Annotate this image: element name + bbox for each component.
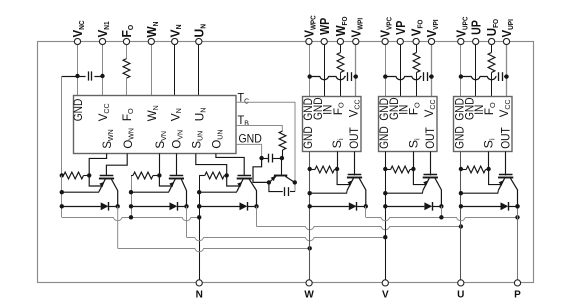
wire SI pin W bbox=[337, 152, 339, 170]
IGBT Q2 (V low) gate bar bbox=[170, 175, 184, 177]
wire HS supply U left bbox=[461, 77, 497, 80]
wire diode cathode 2 (V low) bbox=[178, 206, 187, 208]
wire V phase horizontal bbox=[187, 238, 386, 241]
junction diode anode rail 2 (V low) bbox=[129, 204, 133, 208]
junction sense 2 (V low) bbox=[157, 173, 161, 177]
transistor Q7 emitter arrow bbox=[271, 176, 276, 181]
junction diode anode WHS bbox=[308, 204, 312, 208]
terminal VVPI bbox=[428, 38, 434, 44]
IGBT QVHS collector diagonal bbox=[435, 178, 441, 206]
diode D1 (W low) bbox=[101, 202, 109, 210]
transistor Q7 base wire bbox=[281, 158, 283, 175]
wire sense to emitter 1 (W low) bbox=[89, 175, 102, 186]
wire rail to resistor 3 (U low) bbox=[199, 175, 205, 177]
wire sense to emitter VHS bbox=[413, 169, 425, 185]
diode D3 (U low) bbox=[240, 202, 248, 210]
wire SI pin U bbox=[488, 152, 490, 170]
svg-text:OUT: OUT bbox=[347, 127, 361, 149]
wire Q7 emitter to cap C3 bbox=[269, 182, 283, 191]
wire resistor to sense dot 1 (W low) bbox=[84, 175, 90, 177]
terminal V bbox=[382, 280, 388, 286]
emitter arrow 2 (V low) bbox=[169, 182, 174, 187]
wire diode cathode 3 (U low) bbox=[248, 206, 257, 208]
junction thermistor-cap node bbox=[280, 156, 284, 160]
IGBT QVHS emitter diagonal bbox=[423, 178, 429, 190]
junction diode anode VHS bbox=[383, 204, 387, 208]
junction VUPC bbox=[459, 74, 463, 78]
svg-text:N: N bbox=[196, 290, 203, 301]
wire Tc bbox=[236, 102, 295, 191]
wire UFO terminal to resistor bbox=[491, 45, 493, 53]
wire WN terminal to WN pin bbox=[151, 45, 153, 96]
wire diode anode 1 (W low) bbox=[62, 206, 101, 208]
wire cap C2 to thermistor node bbox=[273, 158, 282, 160]
wire res to sense WHS bbox=[334, 169, 337, 171]
wire N-side emitter bus bbox=[62, 218, 199, 221]
wire FO terminal to resistor bbox=[126, 45, 128, 59]
capacitor C1 between VNC and VN1 bbox=[88, 71, 90, 80]
resistor RVHS sense bbox=[391, 166, 410, 173]
IGBT QWHS emitter diagonal bbox=[347, 178, 353, 190]
wire resistor to sense dot 3 (U low) bbox=[224, 175, 226, 177]
wire sense to emitter UHS bbox=[489, 169, 501, 185]
diode D2 (V low) bbox=[170, 202, 178, 210]
terminal VUPI bbox=[503, 38, 509, 44]
resistor R3 (U low) sense bbox=[205, 172, 224, 179]
IGBT QUHS emitter wire bbox=[461, 190, 499, 193]
svg-text:W: W bbox=[304, 290, 314, 301]
wire resistor to FO pin V bbox=[416, 73, 418, 97]
wire rail 2 (V low) bbox=[131, 175, 133, 217]
wire diode anode UHS bbox=[461, 206, 501, 208]
wire gnd node jog to transistor emitter bbox=[253, 158, 269, 182]
wire diode anode 2 (V low) bbox=[131, 206, 170, 208]
svg-text:GND: GND bbox=[239, 131, 263, 145]
resistor on FO line bbox=[123, 59, 130, 78]
capacitor C2 bbox=[268, 154, 270, 163]
wire res to sense VHS bbox=[410, 169, 414, 171]
wire Tb to thermistor bbox=[236, 126, 282, 132]
junction VNC bbox=[75, 74, 79, 78]
IGBT QUHS emitter diagonal bbox=[498, 178, 504, 190]
wire gnd node to cap C2 bbox=[262, 158, 269, 160]
resistor on WFO line bbox=[337, 53, 344, 73]
wire VVPI terminal to VCC pin bbox=[431, 45, 433, 97]
wire VVPC terminal to HS IC GND pin bbox=[385, 45, 387, 97]
junction emitter rail 1 (W low) bbox=[60, 190, 64, 194]
junction U phase bbox=[459, 224, 463, 228]
terminal P bbox=[514, 280, 520, 286]
terminal WN bbox=[148, 38, 154, 44]
wire U phase rail bbox=[460, 152, 462, 280]
wire VP terminal to IN pin bbox=[400, 45, 402, 97]
wire HS supply V right bbox=[429, 76, 432, 78]
wire VNC terminal to low-side IC GND pin bbox=[77, 45, 79, 96]
junction gnd-cap node bbox=[259, 156, 263, 160]
junction VVPC bbox=[383, 74, 387, 78]
wire diode cathode 1 (W low) bbox=[109, 206, 118, 208]
junction sense 1 (W low) bbox=[87, 173, 91, 177]
wire OUT pin V bbox=[430, 152, 432, 176]
wire resistor to FO pin W bbox=[340, 73, 342, 97]
junction diode cathode 3 (U low) bbox=[254, 204, 258, 208]
terminal VWPI bbox=[353, 38, 359, 44]
junction rail resistor UHS bbox=[459, 167, 463, 171]
svg-text:U: U bbox=[457, 290, 464, 301]
terminal FO bbox=[123, 38, 129, 44]
wire diode cathode UHS bbox=[509, 206, 518, 208]
junction VWPC bbox=[308, 74, 312, 78]
terminal VN bbox=[172, 38, 178, 44]
wire P bus bbox=[366, 218, 518, 221]
junction rail resistor VHS bbox=[383, 167, 387, 171]
junction P bus bbox=[515, 215, 519, 219]
IGBT QVHS gate bar bbox=[424, 174, 438, 176]
IGBT QWHS emitter wire bbox=[310, 190, 348, 193]
wire VN1 terminal to low-side IC VCC pin bbox=[102, 45, 104, 96]
IGBT QVHS emitter wire bbox=[385, 190, 423, 193]
wire VNC junction to N-side ground rail bbox=[62, 76, 78, 78]
wire sense to emitter 3 (U low) bbox=[227, 175, 240, 186]
junction diode cathode VHS bbox=[439, 204, 443, 208]
terminal UN bbox=[196, 38, 202, 44]
IGBT Q3 (U low) emitter wire bbox=[199, 191, 237, 192]
IGBT QUHS gate bar bbox=[499, 174, 513, 176]
wire SVN pin bbox=[159, 154, 161, 176]
wire cap to VN1 junction bbox=[94, 76, 102, 78]
resistor RUHS sense bbox=[466, 166, 485, 173]
junction sense UHS bbox=[486, 167, 490, 171]
junction sense 3 (U low) bbox=[225, 173, 229, 177]
wire diode anode WHS bbox=[310, 206, 349, 208]
terminal VWPC bbox=[306, 38, 312, 44]
wire rail to resistor 2 (V low) bbox=[131, 175, 133, 177]
svg-text:GND: GND bbox=[453, 126, 467, 149]
wire rail to res WHS bbox=[310, 169, 315, 171]
wire SI pin V bbox=[413, 152, 415, 170]
transistor Q7 body bar bbox=[274, 175, 287, 177]
resistor RWHS sense bbox=[315, 166, 334, 173]
wire OVN pin bbox=[176, 154, 178, 176]
wire resistor to FO pin U bbox=[491, 73, 493, 97]
IGBT Q3 (U low) gate bar bbox=[238, 175, 252, 177]
wire resistor to sense dot 2 (V low) bbox=[153, 175, 159, 177]
op-amp UW high-side driver IC box bbox=[303, 97, 362, 152]
IGBT Q1 (W low) collector diagonal bbox=[111, 179, 117, 206]
emitter arrow VHS bbox=[423, 180, 428, 185]
wire rail to res VHS bbox=[385, 169, 390, 171]
wire V phase from low-side bbox=[186, 206, 188, 237]
terminal UFO bbox=[489, 38, 495, 44]
IGBT QUHS body bar bbox=[498, 177, 513, 179]
wire VWPI terminal to VCC pin bbox=[355, 45, 357, 97]
wire VFO terminal to resistor bbox=[416, 45, 418, 53]
wire rail to res UHS bbox=[461, 169, 466, 171]
junction P diode bbox=[515, 204, 519, 208]
junction diode cathode 1 (W low) bbox=[116, 204, 120, 208]
wire N-side ground rail upper 1 (W low) bbox=[61, 76, 63, 175]
wire W cathode down bbox=[365, 206, 367, 217]
terminal VUPC bbox=[458, 38, 464, 44]
svg-text:WP: WP bbox=[317, 17, 332, 34]
terminal VNC bbox=[74, 38, 80, 44]
junction bus N line bbox=[197, 215, 201, 219]
capacitor CVP bbox=[423, 72, 425, 81]
terminal N bbox=[196, 280, 202, 286]
junction diode anode UHS bbox=[459, 204, 463, 208]
wire UP terminal to IN pin bbox=[475, 45, 477, 97]
capacitor CUP bbox=[498, 72, 500, 81]
svg-text:V: V bbox=[382, 290, 389, 301]
wire SUN pin step bbox=[196, 154, 227, 176]
wire VNC junction to decoupling cap bbox=[78, 76, 86, 78]
IGBT Q1 (W low) emitter diagonal bbox=[99, 179, 105, 191]
transistor Q7 emitter diagonal bbox=[269, 176, 276, 182]
wire res to sense UHS bbox=[486, 169, 489, 171]
wire WFO terminal to resistor bbox=[340, 45, 342, 53]
wire W phase horizontal bbox=[118, 249, 310, 252]
junction sense VHS bbox=[411, 167, 415, 171]
junction N diode bbox=[197, 204, 201, 208]
resistor on UFO line bbox=[488, 53, 495, 73]
capacitor C3 bbox=[284, 187, 286, 196]
junction rail resistor WHS bbox=[308, 167, 312, 171]
wire GND pin to cap node bbox=[236, 144, 261, 158]
svg-text:GND: GND bbox=[301, 126, 315, 149]
node P line bbox=[517, 206, 519, 279]
junction diode cathode WHS bbox=[364, 204, 368, 208]
junction bus V rail bbox=[129, 215, 133, 219]
IGBT Q2 (V low) emitter diagonal bbox=[169, 179, 175, 191]
terminal WFO bbox=[337, 38, 343, 44]
IGBT QWHS gate bar bbox=[348, 174, 362, 176]
wire HS supply W left bbox=[310, 77, 346, 80]
IGBT Q2 (V low) collector diagonal bbox=[181, 179, 186, 206]
IGBT Q1 (W low) body bar bbox=[99, 178, 114, 180]
module package outline bbox=[38, 42, 534, 283]
op-amp UU high-side driver IC box bbox=[454, 97, 513, 152]
terminal VFO bbox=[413, 38, 419, 44]
junction Q7 emitter bbox=[267, 180, 271, 184]
transistor Q7 collector diagonal bbox=[285, 176, 294, 182]
svg-text:GND: GND bbox=[71, 99, 85, 122]
terminal UP bbox=[473, 38, 479, 44]
terminal WP bbox=[321, 38, 327, 44]
IGBT Q3 (U low) collector diagonal bbox=[249, 179, 256, 206]
wire sense to emitter 2 (V low) bbox=[159, 175, 171, 186]
wire WP terminal to IN pin bbox=[324, 45, 326, 97]
terminal U bbox=[458, 280, 464, 286]
junction VWPI bbox=[354, 74, 358, 78]
wire UN terminal to UN pin bbox=[198, 45, 200, 96]
wire OUN pin step bbox=[216, 154, 244, 176]
wire W phase rail bbox=[309, 152, 311, 280]
wire HS supply W right bbox=[353, 76, 356, 78]
op-amp UV high-side driver IC box bbox=[379, 97, 438, 152]
emitter arrow UHS bbox=[499, 180, 504, 185]
diode DVHS bbox=[424, 202, 432, 210]
thermistor R7 bbox=[279, 131, 286, 150]
IGBT QWHS body bar bbox=[347, 177, 362, 179]
junction V cathode bus bbox=[439, 215, 443, 219]
IGBT Q2 (V low) emitter wire bbox=[131, 191, 169, 192]
IGBT QWHS collector diagonal bbox=[359, 178, 366, 206]
svg-text:GND: GND bbox=[377, 126, 391, 149]
wire sense to emitter WHS bbox=[337, 169, 350, 185]
wire VUPI terminal to VCC pin bbox=[506, 45, 508, 97]
junction VN1 bbox=[100, 74, 104, 78]
wire U phase horizontal bbox=[257, 227, 461, 230]
wire OWN pin step bbox=[106, 154, 127, 176]
wire HS supply U right bbox=[504, 76, 507, 78]
wire rail to resistor 1 (W low) bbox=[62, 175, 64, 177]
junction diode anode rail 3 (U low) bbox=[197, 204, 201, 208]
wire W phase from low-side bbox=[117, 206, 119, 248]
wire thermistor to node bbox=[282, 150, 284, 158]
wire U phase from low-side bbox=[256, 206, 258, 226]
diode DUHS bbox=[501, 202, 509, 210]
capacitor CWP bbox=[347, 72, 349, 81]
terminal VN1 bbox=[99, 38, 105, 44]
junction rail resistor 1 (W low) bbox=[60, 173, 64, 177]
wire diode cathode WHS bbox=[357, 206, 366, 208]
wire resistor to FO pin bbox=[126, 78, 128, 95]
terminal VP bbox=[397, 38, 403, 44]
emitter arrow 3 (U low) bbox=[237, 182, 242, 187]
junction emitter rail UHS bbox=[459, 191, 463, 195]
junction diode anode rail 1 (W low) bbox=[60, 204, 64, 208]
svg-text:OUT: OUT bbox=[423, 127, 437, 149]
junction emitter rail VHS bbox=[383, 191, 387, 195]
resistor R2 (V low) sense bbox=[133, 172, 153, 179]
node N line bbox=[199, 217, 201, 279]
wire OUT pin U bbox=[505, 152, 507, 176]
wire OUT pin W bbox=[354, 152, 356, 176]
junction VUPI bbox=[504, 74, 508, 78]
wire rail 3 (U low) bbox=[199, 175, 201, 217]
wire HS supply V left bbox=[385, 77, 421, 80]
wire diode anode 3 (U low) bbox=[199, 206, 239, 208]
wire V cathode down bbox=[441, 206, 443, 217]
wire diode cathode VHS bbox=[433, 206, 442, 208]
IGBT Q1 (W low) emitter wire bbox=[62, 191, 99, 192]
svg-text:P: P bbox=[514, 290, 521, 301]
junction Q7 collector on Tc line bbox=[293, 180, 297, 184]
op-amp U1 low-side driver IC box bbox=[74, 96, 237, 154]
svg-text:UP: UP bbox=[468, 20, 483, 35]
IGBT QUHS collector diagonal bbox=[511, 178, 518, 206]
IGBT Q3 (U low) emitter diagonal bbox=[237, 179, 243, 191]
junction emitter rail 2 (V low) bbox=[129, 190, 133, 194]
IGBT QVHS body bar bbox=[423, 177, 438, 179]
diode DWHS bbox=[349, 202, 357, 210]
wire diode anode VHS bbox=[385, 206, 424, 208]
junction emitter rail 3 (U low) bbox=[197, 190, 201, 194]
IGBT Q1 (W low) gate bar bbox=[100, 175, 114, 177]
wire cap C3 to Tc line bbox=[290, 191, 295, 193]
resistor on VFO line bbox=[413, 53, 420, 73]
wire SWN pin step bbox=[89, 154, 106, 176]
IGBT Q2 (V low) body bar bbox=[169, 178, 184, 180]
junction diode cathode 2 (V low) bbox=[184, 204, 188, 208]
IGBT Q3 (U low) body bar bbox=[237, 178, 252, 180]
junction emitter rail WHS bbox=[308, 191, 312, 195]
junction VVPI bbox=[429, 74, 433, 78]
wire V phase rail bbox=[385, 152, 387, 280]
junction sense WHS bbox=[335, 167, 339, 171]
junction W phase bbox=[308, 246, 312, 250]
svg-text:OUT: OUT bbox=[498, 127, 512, 149]
junction diode cathode UHS bbox=[515, 204, 519, 208]
emitter arrow WHS bbox=[347, 180, 352, 185]
resistor R1 (W low) sense bbox=[64, 172, 84, 179]
wire VN terminal to VN pin bbox=[174, 45, 176, 96]
wire VUPC terminal to HS IC GND pin bbox=[460, 45, 462, 97]
junction V phase bbox=[383, 235, 387, 239]
terminal W bbox=[306, 280, 312, 286]
wire rail 1 (W low) bbox=[61, 175, 63, 217]
terminal VVPC bbox=[382, 38, 388, 44]
emitter arrow 1 (W low) bbox=[99, 182, 104, 187]
wire VWPC terminal to HS IC GND pin bbox=[309, 45, 311, 97]
svg-text:VP: VP bbox=[393, 20, 408, 34]
